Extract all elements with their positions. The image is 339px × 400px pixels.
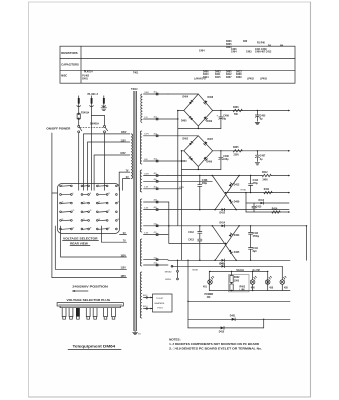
svg-text:D409: D409: [207, 120, 213, 123]
svg-text:C415: C415: [256, 205, 262, 208]
svg-text:D409: D409: [234, 200, 240, 203]
rail 6.3V heater A: [168, 209, 289, 211]
svg-text:C412: C412: [188, 231, 194, 234]
svg-text:HEATERS: HEATERS: [155, 302, 165, 305]
diode D401: [232, 318, 235, 321]
svg-text:D401: D401: [230, 315, 236, 318]
svg-text:0V: 0V: [123, 233, 126, 235]
svg-text:SW401#: SW401#: [90, 123, 100, 126]
svg-text:D410: D410: [203, 73, 209, 76]
svg-text:23: 23: [73, 210, 75, 212]
wire secondary 107V to bridge2 top: [168, 135, 198, 137]
svg-text:D405: D405: [234, 251, 240, 254]
plug pin 7: [112, 308, 116, 320]
svg-text:D409: D409: [236, 76, 242, 79]
tap wire 115V: [88, 142, 130, 190]
svg-text:400µ: 400µ: [202, 182, 208, 185]
resistor R414: [272, 211, 280, 213]
rectifier cross wire 3: [212, 226, 236, 260]
svg-text:D412: D412: [234, 184, 240, 187]
svg-text:R406: R406: [233, 106, 239, 109]
svg-text:D406: D406: [203, 70, 209, 73]
diode D415: [221, 326, 224, 329]
rectifier cross wire 1: [212, 176, 236, 210]
rail +HT1: [213, 110, 289, 112]
wire pole2 feed: [104, 116, 106, 126]
switch SW401 pole 1: [78, 125, 82, 190]
svg-text:D411: D411: [215, 73, 221, 76]
svg-text:1. # DENOTES COMPONENTS NOT MO: 1. # DENOTES COMPONENTS NOT MOUNTED ON P…: [169, 342, 259, 346]
svg-text:MISC: MISC: [61, 75, 67, 77]
svg-text:R405: R405: [233, 146, 239, 149]
svg-text:C406: C406: [231, 48, 237, 51]
wire lamp2 stubs: [252, 271, 254, 279]
svg-text:FIG.8: FIG.8: [158, 308, 164, 310]
rail 100V tap segment: [168, 180, 212, 182]
inner dashed box: [229, 275, 249, 292]
rail +HT2: [213, 150, 289, 152]
svg-text:PL402: PL402: [82, 75, 89, 78]
wire bridge1 left to feed: [178, 110, 184, 112]
svg-text:REAR VIEW: REAR VIEW: [70, 241, 88, 245]
plug pin 1: [62, 308, 66, 320]
bridge rectifier D402-D407 diamond: [184, 136, 213, 167]
svg-text:115V: 115V: [121, 268, 127, 270]
plug pin 6: [104, 308, 108, 320]
capacitor C411: [250, 234, 252, 247]
diode D409: [204, 116, 207, 119]
svg-text:185V: 185V: [121, 276, 127, 278]
fuse FS401: [77, 112, 90, 126]
secondary winding S2: [140, 131, 141, 164]
svg-text:LP403: LP403: [260, 77, 267, 80]
svg-text:37: 37: [73, 227, 75, 229]
capacitor C408: [199, 176, 201, 185]
svg-text:D411: D411: [220, 263, 226, 266]
svg-text:C403: C403: [246, 51, 252, 54]
plug pin 5: [93, 308, 97, 320]
junction dots: [168, 110, 240, 261]
tap labels: [144, 92, 156, 265]
tap wire 105V: [94, 155, 130, 190]
lamp LP403: [265, 280, 270, 285]
svg-text:2. □419 DENOTES PC BOARD EYELE: 2. □419 DENOTES PC BOARD EYELET OR TERMI…: [169, 347, 262, 351]
diode D406: [204, 157, 207, 160]
svg-text:D401: D401: [82, 77, 88, 80]
svg-text:R411: R411: [264, 188, 270, 191]
svg-text:D408: D408: [236, 73, 242, 76]
wire selector 115V out: [55, 226, 126, 269]
svg-text:11: 11: [90, 193, 92, 195]
rail HT3 top: [168, 225, 307, 227]
svg-text:C404: C404: [199, 49, 205, 52]
svg-text:D404: D404: [234, 234, 240, 237]
svg-text:2400: 2400: [263, 178, 269, 181]
diode D413: [261, 202, 264, 205]
svg-text:MR1H: MR1H: [165, 279, 171, 281]
svg-text:R402: R402: [234, 276, 240, 279]
parts table frame: [60, 46, 295, 83]
plug pin 3 (fitted): [76, 308, 80, 320]
wire switch to selector left (long outer): [52, 133, 127, 278]
diode D414: [222, 225, 225, 228]
resistor R402 box: [230, 275, 233, 282]
svg-text:Telequipment DM64: Telequipment DM64: [73, 345, 116, 349]
svg-text:CAPACITORS: CAPACITORS: [61, 64, 79, 67]
wire aux vertical: [245, 193, 247, 212]
svg-text:C411: C411: [253, 247, 259, 250]
connector PL401 pin 3 (earth): [102, 96, 106, 108]
svg-text:E413: E413: [143, 306, 147, 308]
svg-text:T401: T401: [133, 72, 139, 75]
rail 100V with resistor R412: [168, 175, 262, 177]
svg-text:13: 13: [108, 193, 110, 195]
svg-text:35: 35: [118, 219, 120, 221]
voltage selector caption: [63, 237, 99, 246]
resistors row values: [226, 40, 272, 49]
lamp LP401: [208, 280, 213, 285]
svg-text:R403: R403: [240, 285, 246, 288]
secondary winding S1: [141, 94, 142, 122]
rail aux1: [246, 202, 289, 204]
junction dots lamp rail: [231, 271, 232, 272]
svg-text:D415: D415: [215, 76, 221, 79]
svg-text:D415: D415: [219, 330, 225, 333]
wire bridge1 bottom rail: [178, 126, 221, 129]
diode D410: [222, 208, 225, 211]
wire return vertical: [263, 319, 265, 328]
svg-text:2200: 2200: [234, 155, 240, 157]
svg-text:C408: C408: [202, 179, 208, 182]
tap wire 7V: [119, 172, 130, 190]
capacitor C407: [256, 151, 258, 155]
svg-text:107V: 107V: [144, 134, 149, 136]
diode D405: [190, 117, 193, 120]
bridge rectifier D404-D409 diamond: [184, 94, 213, 126]
secondary winding S4: [140, 199, 141, 232]
svg-text:D406: D406: [207, 161, 213, 164]
svg-text:VOLTAGE SELECTOR PLUG: VOLTAGE SELECTOR PLUG: [67, 299, 111, 302]
rail aux bottom 1: [188, 300, 290, 302]
svg-text:D404: D404: [183, 96, 189, 99]
240/260V position note: [72, 286, 108, 292]
svg-text:105V: 105V: [121, 255, 127, 257]
wire selector 0V out: [120, 234, 127, 236]
resistor R403 box: [230, 284, 233, 291]
wire MR stub: [177, 260, 179, 270]
svg-text:VOLTAGE SELECTOR: VOLTAGE SELECTOR: [63, 237, 98, 241]
terminal E414: [156, 225, 158, 227]
svg-text:1000: 1000: [234, 280, 240, 282]
wire selector 105V out: [61, 226, 127, 257]
svg-text:HT/B1: HT/B1: [241, 189, 248, 191]
voltage selector pin grid: [60, 184, 120, 230]
secondary winding S5: [140, 239, 141, 266]
svg-text:21: 21: [118, 202, 120, 204]
tap wires: [144, 93, 182, 266]
wire X-B left feed: [169, 202, 226, 243]
svg-text:E4: E4: [138, 334, 140, 336]
diode D402: [189, 142, 192, 145]
capacitor C405: [256, 111, 258, 116]
svg-text:ON/OFF POWER: ON/OFF POWER: [46, 127, 70, 131]
wire bridge2 bottom rail: [182, 167, 221, 170]
misc row values: [82, 70, 267, 80]
svg-text:D410: D410: [220, 212, 226, 215]
svg-text:MR1B2: MR1B2: [165, 271, 173, 273]
lamp LP404: [280, 280, 285, 285]
svg-text:D408: D408: [208, 96, 214, 99]
feed wire vertical A: [177, 111, 179, 226]
svg-text:FS401#: FS401#: [81, 112, 90, 115]
diode D403b: [222, 259, 225, 262]
rail D415 return: [188, 327, 264, 329]
svg-text:C413: C413: [188, 239, 194, 242]
svg-text:D405: D405: [226, 70, 232, 73]
svg-text:T401#: T401#: [131, 88, 138, 91]
heater wire 2 with arrow: [143, 306, 153, 309]
svg-text:D403: D403: [215, 70, 221, 73]
svg-text:C406: C406: [223, 155, 229, 158]
svg-text:4700µ: 4700µ: [253, 235, 260, 238]
resistor R405: [233, 150, 243, 152]
lamp LP402: [250, 280, 255, 285]
svg-text:M18B: M18B: [193, 269, 199, 271]
rail aux2: [246, 211, 289, 213]
svg-text:39: 39: [90, 227, 92, 229]
svg-text:PL401 #: PL401 #: [84, 70, 93, 73]
lamp enclosure box: [209, 271, 267, 290]
rectifier cross wire 2: [215, 176, 239, 210]
svg-text:7V: 7V: [123, 241, 126, 243]
svg-text:C404: C404: [231, 51, 237, 54]
svg-text:100µ: 100µ: [223, 159, 229, 161]
connector PL401 pin 2: [90, 96, 94, 116]
diode D404b: [229, 234, 232, 237]
svg-text:D405: D405: [181, 120, 187, 123]
voltage selector body: [57, 184, 119, 234]
diode D404: [189, 101, 192, 104]
svg-text:LP402: LP402: [247, 77, 254, 80]
secondary winding S6: [140, 272, 142, 318]
svg-text:R40: R40: [243, 40, 248, 43]
svg-text:C405: C405: [260, 114, 266, 117]
terminal MR1B2: [177, 270, 179, 272]
resistor R411: [264, 191, 272, 193]
svg-text:470µ: 470µ: [253, 182, 259, 185]
diode D408: [205, 100, 208, 103]
svg-text:25: 25: [90, 210, 92, 212]
wire secondary 240V to bridge top: [168, 93, 198, 95]
svg-text:NOTES:: NOTES:: [169, 338, 181, 342]
plug pin 2: [69, 308, 73, 320]
svg-text:D413: D413: [236, 70, 242, 73]
terminal MR1H: [177, 278, 179, 280]
rail D401: [188, 318, 290, 320]
capacitor C409: [217, 110, 230, 129]
svg-text:D413: D413: [259, 199, 265, 202]
capacitors row values: [199, 40, 284, 53]
svg-text:41: 41: [108, 227, 110, 229]
svg-text:E412: E412: [143, 295, 147, 297]
svg-text:27: 27: [108, 210, 110, 212]
rail mid output: [226, 192, 289, 194]
rail lamp bottom extension: [268, 290, 290, 292]
feed wire vertical B: [181, 151, 183, 260]
diode D405b: [229, 250, 232, 253]
rail HT3 bottom: [168, 259, 290, 261]
tap wire 0V: [123, 179, 130, 191]
diode D411: [222, 265, 225, 268]
primary winding: [131, 134, 132, 179]
svg-text:240/260V POSITION: 240/260V POSITION: [72, 286, 108, 289]
svg-text:TO EXT: TO EXT: [156, 298, 164, 300]
transformer core: [134, 91, 136, 331]
svg-text:LUM: LUM: [240, 290, 245, 292]
svg-text:R406: R406: [226, 40, 232, 43]
svg-text:C411 C409: C411 C409: [255, 48, 267, 51]
wire lamp4 stubs: [281, 266, 283, 279]
wire pin2 down to selector: [91, 116, 93, 191]
svg-text:D402: D402: [183, 137, 189, 140]
resistor R406: [233, 109, 243, 111]
svg-text:R405: R405: [226, 43, 232, 46]
svg-text:RESISTORS: RESISTORS: [61, 53, 78, 55]
svg-text:R412: R412: [262, 171, 268, 174]
capacitor C415: [253, 203, 255, 206]
svg-text:ON: ON: [207, 297, 211, 299]
terminal M18: [171, 265, 173, 267]
voltage selector plug bar: [57, 303, 123, 308]
diode D407: [205, 141, 208, 144]
wire right bus vertical: [306, 226, 308, 260]
svg-text:C406-407 C412: C406-407 C412: [255, 51, 272, 54]
heater wire 1 with arrow: [143, 295, 153, 298]
svg-text:C410: C410: [253, 232, 259, 235]
rail lamp feed: [172, 265, 282, 267]
heater connector box TO EXT HEATERS: [153, 294, 173, 312]
earth ground symbol: [101, 108, 107, 111]
svg-text:R414: R414: [272, 207, 278, 210]
svg-text:R1 R40: R1 R40: [257, 42, 266, 45]
svg-text:PL401 #: PL401 #: [88, 93, 99, 96]
ON/OFF POWER label: [46, 127, 70, 131]
switch gang dashed link: [80, 126, 103, 128]
capacitor C406: [219, 150, 230, 169]
svg-text:LA404 D4.7: LA404 D4.7: [194, 78, 207, 81]
connector PL401 pin 1: [77, 96, 81, 114]
svg-text:240V: 240V: [144, 92, 149, 94]
svg-text:100V: 100V: [144, 173, 149, 175]
svg-text:HT/B: HT/B: [179, 187, 184, 189]
rectifier cross wire 4: [215, 226, 239, 260]
svg-text:C407: C407: [260, 155, 266, 158]
wire left drop: [187, 260, 189, 328]
resistor R412: [262, 174, 271, 176]
wire selector left entry: [52, 192, 58, 194]
wire selector 7V out: [101, 226, 126, 242]
capacitor C413: [199, 233, 201, 239]
chassis ground at core bottom: [133, 331, 138, 335]
svg-text:C414: C414: [253, 179, 259, 182]
capacitor C414: [250, 176, 252, 184]
svg-text:D414: D414: [220, 221, 226, 224]
switch SW401 pole 2: [104, 125, 108, 190]
svg-text:POWER: POWER: [205, 294, 214, 296]
diode D409b: [229, 199, 232, 202]
wire bridge2 left to feed: [182, 150, 184, 152]
capacitor C412: [199, 226, 201, 232]
svg-text:D412: D412: [226, 73, 232, 76]
svg-text:D407: D407: [208, 138, 214, 141]
diode D403: [190, 158, 193, 161]
plug pin 4: [86, 308, 90, 320]
svg-text:D407: D407: [226, 76, 232, 79]
secondary winding S3: [140, 170, 142, 192]
diode D412: [229, 184, 232, 187]
tap wire 185V: [84, 134, 130, 190]
svg-text:C409: C409: [223, 114, 229, 117]
capacitor C410: [250, 226, 252, 233]
